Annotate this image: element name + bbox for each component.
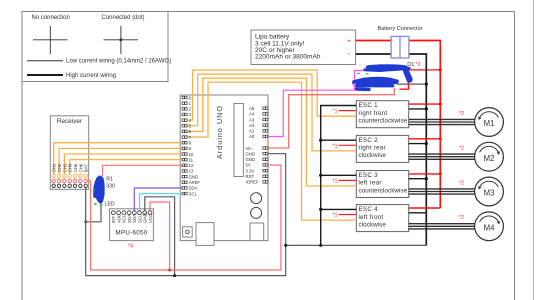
svg-text:GND: GND [189, 174, 199, 179]
wire: Arduino Vin to diode D1 (red) [268, 88, 394, 148]
svg-text:*4: *4 [128, 243, 133, 249]
svg-text:M4: M4 [484, 224, 495, 233]
wire: ground rail to ESC 3 (black) [321, 174, 357, 176]
legend box [22, 12, 168, 82]
svg-text:GND: GND [246, 157, 256, 162]
pen scribble over divider (lower) [352, 77, 399, 90]
svg-text:MPU-6050: MPU-6050 [116, 229, 148, 236]
wire: ESC 4 to battery minus rail (black) [409, 212, 427, 214]
svg-text:CH1: CH1 [52, 163, 57, 172]
wire: battery plus to connector to red rail [356, 41, 441, 209]
svg-text:M1: M1 [484, 119, 495, 128]
svg-text:Battery Connector: Battery Connector [377, 26, 422, 32]
arduino mounting circles [251, 193, 262, 219]
legend: low current wiring sample [27, 59, 171, 65]
arduino left pin pads 0-13,GND,AREF,SDA,SCL [182, 95, 200, 196]
junction dot: divider node on A0 wire [353, 83, 356, 86]
wire: ESC 1 to battery plus rail (red) [409, 103, 441, 105]
svg-text:VCC: VCC [148, 214, 153, 223]
svg-text:ESC 4: ESC 4 [359, 206, 379, 213]
wire: MPU GND to ground bus (black) [145, 197, 175, 276]
wire: ESC 1 three phase wires to motor M1 [409, 119, 475, 124]
wire: ground bus to battery minus rail [286, 244, 427, 246]
svg-text:SCL: SCL [189, 191, 198, 196]
wire: ESC 2 to battery plus rail (red) [409, 138, 441, 140]
receiver pin labels CH1-CH6, BAT [52, 163, 89, 172]
arduino header strip [234, 104, 243, 177]
junction dots: battery minus rail [425, 83, 428, 181]
wire: ground rail to ESC 4 (black) [321, 208, 357, 210]
battery connector J1 [377, 26, 422, 58]
svg-text:clockwise: clockwise [359, 152, 387, 159]
receiver power pin row (red) [52, 179, 87, 182]
svg-text:right front: right front [359, 110, 388, 117]
junction dots: ESC ground rail [319, 139, 322, 211]
wire: ESC 4 three phase wires to motor M4 [409, 224, 475, 229]
svg-text:CH3: CH3 [62, 163, 67, 172]
ESC 4 body [356, 205, 408, 232]
svg-text:Arduino UNO: Arduino UNO [216, 105, 224, 159]
wire: voltage divider to battery minus rail (black) [397, 83, 427, 85]
wire: ESC 3 three phase wires to motor M3 [409, 189, 475, 194]
svg-text:10: 10 [189, 152, 194, 157]
wire: Arduino pin 5 to ESC 2 signal (orange) [182, 74, 356, 151]
lipo battery BT1 text [255, 34, 321, 61]
legend: connected (dot) symbol [102, 15, 145, 54]
svg-text:CH4: CH4 [68, 163, 73, 172]
svg-text:A0: A0 [249, 134, 255, 139]
arduino U1 body [180, 95, 268, 241]
svg-text:BAT: BAT [84, 164, 89, 173]
svg-text:*2: *2 [459, 146, 464, 152]
wire: ESC 2 three phase wires to motor M2 [409, 154, 475, 159]
svg-text:Receiver: Receiver [57, 118, 83, 125]
wire: Arduino 5V to receiver BAT+ (red rail) [87, 165, 281, 270]
legend: high current wiring sample [27, 73, 116, 79]
pen scribble over LED/R1 [95, 175, 105, 203]
svg-text:CH5: CH5 [73, 163, 78, 172]
svg-text:right rear: right rear [359, 145, 386, 152]
svg-text:counterclockwise: counterclockwise [359, 187, 408, 194]
junction dots: battery plus rail [439, 68, 442, 175]
svg-text:XDA: XDA [127, 214, 132, 223]
wire: Arduino A0 to battery voltage divider (magenta) [268, 71, 366, 137]
svg-text:11: 11 [189, 157, 194, 162]
ESC 2 labels [359, 137, 387, 159]
wire: MPU VCC to 5V rail (red) [150, 202, 170, 270]
ESC 3 body [356, 171, 408, 198]
svg-text:counterclockwise: counterclockwise [359, 118, 408, 125]
svg-text:-: - [348, 51, 350, 58]
svg-text:13: 13 [189, 169, 194, 174]
receiver signal pin row (orange) [52, 174, 87, 177]
wire: receiver CH2 to Arduino pin 9 (orange) [59, 148, 182, 174]
ESC 2 body [356, 135, 408, 162]
svg-text:*1: *1 [332, 213, 337, 219]
MPU-6050 pins INT,AD0,XCL,XDA,SDA,SCL,GND,VCC [111, 211, 153, 223]
svg-text:A5: A5 [249, 106, 255, 111]
wire: ESC ground rail (black) [321, 106, 357, 246]
motor M4 [475, 212, 504, 241]
svg-text:LED: LED [105, 202, 115, 208]
svg-text:CH6: CH6 [78, 163, 83, 172]
wire: Arduino GND to ground bus (black) [86, 154, 286, 276]
wire: LED cathode to ground bus (black) [86, 203, 101, 222]
svg-text:*1: *1 [332, 178, 337, 184]
svg-text:Vin: Vin [246, 146, 253, 151]
wire: receiver CH3 to Arduino pin 10 (orange) [64, 154, 182, 174]
wire: D1 cathode to battery plus rail (red) [409, 69, 441, 71]
svg-text:3.3V: 3.3V [246, 168, 255, 173]
svg-text:*1: *1 [332, 143, 337, 149]
svg-text:+: + [347, 38, 351, 45]
pen scribble over D1 (upper) [363, 65, 411, 81]
junction dots: ground bus [84, 220, 322, 277]
svg-text:IOREF: IOREF [246, 180, 260, 185]
svg-text:*2: *2 [459, 180, 464, 186]
MPU-6050 body [110, 209, 154, 241]
svg-text:INT: INT [111, 216, 116, 223]
svg-text:Connected (dot): Connected (dot) [102, 15, 145, 21]
svg-text:SCL: SCL [137, 214, 142, 223]
wire: BEC 5V stub into ESC 1 (red, note *1) [339, 110, 357, 112]
LED symbol remnants (green) [93, 189, 103, 206]
svg-text:2200mAh or 3800mAh: 2200mAh or 3800mAh [255, 54, 321, 61]
legend: no-connection crossing symbol [32, 15, 70, 54]
wire: receiver CH1 to Arduino pin 8 (orange) [54, 143, 182, 175]
ESC 3 labels [359, 172, 408, 194]
wire: BEC 5V stub into ESC 4 (red, note *1) [339, 214, 357, 216]
svg-text:CH2: CH2 [57, 163, 62, 172]
resistor R1 value labels [106, 177, 115, 190]
wire: Arduino pin 6 to ESC 3 signal (orange) [182, 78, 356, 186]
svg-text:M2: M2 [484, 154, 495, 163]
svg-text:*3: *3 [415, 62, 420, 68]
ESC 4 labels [359, 206, 387, 228]
wire: Arduino pin 12 to resistor R1 (red) [103, 165, 183, 176]
wire: ESC 3 to battery minus rail (black) [409, 178, 427, 180]
junction dots: 5V rail [168, 269, 171, 272]
wire: ESC 2 to battery minus rail (black) [409, 143, 427, 145]
wire: Arduino pin 4 to ESC 1 signal (orange) [182, 70, 356, 120]
motor M1 [475, 108, 504, 137]
svg-text:ESC 1: ESC 1 [359, 102, 379, 109]
wire: Arduino pin 7 to ESC 4 signal (orange) [182, 82, 356, 220]
svg-text:GND: GND [246, 151, 256, 156]
svg-text:GND: GND [143, 213, 148, 223]
svg-text:left front: left front [359, 214, 384, 221]
svg-text:SDA: SDA [132, 214, 137, 223]
svg-text:left rear: left rear [359, 180, 382, 187]
wire: ESC 1 to battery minus rail (black) [409, 108, 427, 110]
arduino power jack [183, 227, 193, 237]
ESC 1 body [356, 101, 408, 128]
svg-text:A4: A4 [249, 112, 255, 117]
svg-text:330: 330 [106, 184, 115, 190]
svg-text:RST: RST [246, 174, 255, 179]
svg-text:SDA: SDA [189, 186, 198, 191]
ESC 1 labels [359, 102, 408, 124]
wire: MPU SDA to Arduino SDA (purple) [134, 188, 182, 211]
svg-text:5V: 5V [246, 163, 251, 168]
wire: BEC 5V stub into ESC 3 (red, note *1) [339, 179, 357, 181]
arduino right pin pads A5-A0, Vin..IOREF [246, 106, 268, 185]
wire: battery minus to connector to black rail [356, 54, 427, 245]
motor M3 [475, 177, 504, 206]
svg-text:12: 12 [189, 163, 194, 168]
svg-text:clockwise: clockwise [359, 221, 387, 228]
receiver body [50, 116, 88, 190]
svg-text:ESC 2: ESC 2 [359, 137, 379, 144]
svg-text:XCL: XCL [122, 214, 127, 223]
wire: ESC 4 to battery plus rail (red) [409, 207, 441, 209]
svg-text:A1: A1 [249, 129, 255, 134]
svg-text:*2: *2 [459, 215, 464, 221]
svg-text:ESC 3: ESC 3 [359, 172, 379, 179]
svg-text:A3: A3 [249, 117, 255, 122]
svg-text:A2: A2 [249, 123, 255, 128]
wire: ESC 3 to battery plus rail (red) [409, 173, 441, 175]
svg-text:AREF: AREF [189, 180, 201, 185]
wire: BEC 5V stub into ESC 2 (red, note *1) [339, 144, 357, 146]
arduino usb connector [250, 223, 264, 241]
svg-text:D1: D1 [407, 62, 414, 68]
diode D1 (covered by pen scribble) [399, 70, 409, 89]
lipo battery BT1 body [251, 30, 356, 65]
svg-text:R1: R1 [106, 177, 113, 183]
wire: ground rail to ESC 2 (black) [321, 139, 357, 141]
wire: receiver CH4 to Arduino pin 11 (orange) [70, 160, 182, 175]
wire: MPU SCL to Arduino SCL (cyan) [140, 194, 183, 211]
svg-text:M3: M3 [484, 189, 495, 198]
capacitor remnants (green) between scribbles [357, 73, 369, 75]
receiver ground pin row (black) [52, 184, 87, 187]
motor M2 [475, 142, 504, 171]
svg-text:AD0: AD0 [116, 214, 121, 223]
svg-text:Low current wiring (0,14mm2 /: Low current wiring (0,14mm2 / 26AWG) [66, 59, 171, 65]
arduino barrel connector [196, 223, 214, 246]
svg-text:No connection: No connection [32, 15, 70, 21]
svg-text:*2: *2 [459, 111, 464, 117]
svg-text:High current wiring: High current wiring [66, 73, 116, 79]
svg-text:*1: *1 [332, 109, 337, 115]
